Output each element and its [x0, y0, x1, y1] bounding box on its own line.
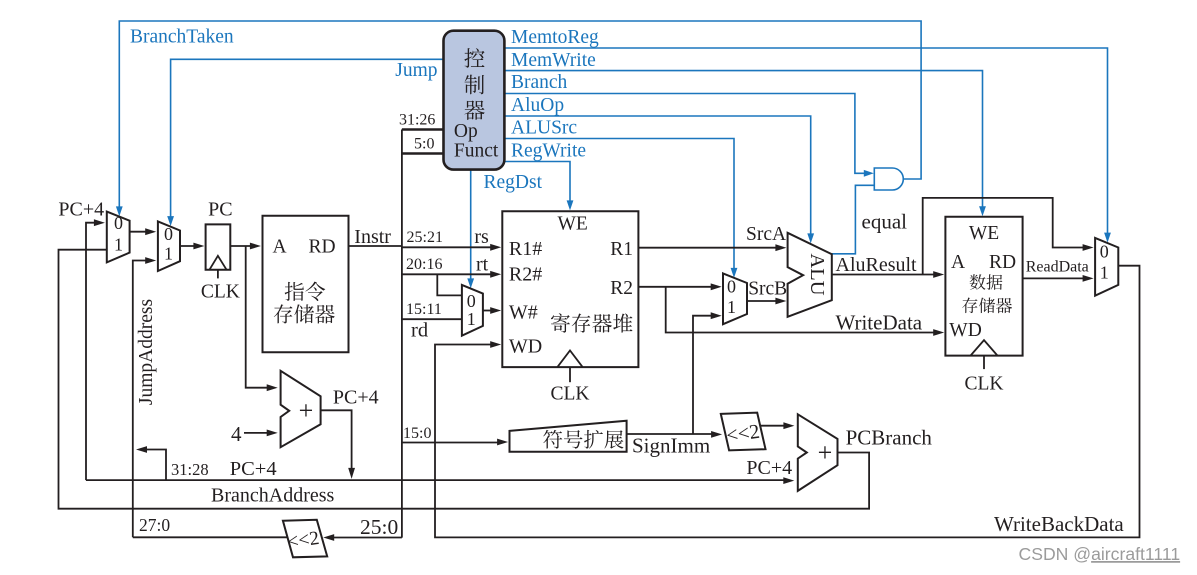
label MemtoReg — [511, 27, 599, 48]
svg-text:1: 1 — [467, 309, 476, 329]
svg-text:1: 1 — [114, 235, 123, 255]
svg-text:1: 1 — [1100, 263, 1109, 283]
svg-text:RD: RD — [308, 237, 335, 258]
svg-text:AluOp: AluOp — [511, 95, 564, 116]
wire W# mux output to register file W# — [483, 307, 501, 314]
label CLK of data memory — [965, 373, 1004, 394]
label WriteBackData — [994, 512, 1124, 536]
register PC with clock edge symbol — [206, 224, 231, 278]
svg-text:WE: WE — [969, 223, 999, 244]
svg-text:BranchTaken: BranchTaken — [130, 27, 234, 48]
mux M4 ALUSrc SrcB select — [723, 273, 747, 324]
svg-text:0: 0 — [467, 291, 476, 311]
svg-text:PCBranch: PCBranch — [846, 425, 933, 449]
label 25:21 — [407, 229, 443, 246]
label RegDst — [484, 172, 543, 193]
svg-text:rs: rs — [474, 226, 489, 248]
wire constant 4 into PC+4 adder — [244, 430, 278, 437]
shifter <<2 jump address — [283, 520, 327, 558]
wire rt tap down to W# mux input 0 — [437, 274, 461, 295]
wire 31:28 tap from PC+4 bus to jump address — [136, 446, 166, 480]
label AluOp — [511, 95, 564, 116]
label 15:0 — [403, 425, 431, 442]
wire PC+4 feedback bus (horizontal) — [86, 477, 794, 484]
wire ReadData from data memory RD to writeback mux input 1 — [1023, 275, 1094, 282]
wire branch shifter output to branch adder input — [761, 422, 795, 429]
svg-text:Branch: Branch — [511, 72, 568, 93]
label Instr — [354, 226, 391, 248]
svg-text:JumpAddress: JumpAddress — [136, 299, 157, 405]
svg-text:Op: Op — [454, 121, 478, 142]
wire Instr from instruction memory RD to instruction bus — [349, 245, 402, 247]
svg-text:MemtoReg: MemtoReg — [511, 27, 599, 48]
svg-text:SrcB: SrcB — [748, 279, 787, 300]
label BranchAddress — [211, 485, 335, 507]
wire MemtoReg (control unit to writeback mux select) — [504, 48, 1111, 243]
svg-text:CLK: CLK — [965, 373, 1004, 394]
mux M1 branch-taken PC source select — [107, 212, 130, 263]
svg-text:<<2: <<2 — [725, 421, 761, 447]
label rd — [411, 320, 428, 342]
svg-text:SrcA: SrcA — [746, 224, 786, 245]
svg-text:R2: R2 — [610, 278, 633, 299]
svg-text:WE: WE — [558, 214, 588, 235]
wire Jump (control unit to jump mux select) — [167, 59, 443, 226]
label rs — [474, 226, 489, 248]
svg-text:SignImm: SignImm — [632, 434, 710, 458]
mux M3 RegDst W# select — [462, 285, 483, 336]
svg-text:1: 1 — [164, 243, 173, 263]
svg-text:CLK: CLK — [551, 383, 590, 404]
sign extend unit 符号扩展 — [510, 421, 627, 452]
svg-text:4: 4 — [231, 422, 242, 446]
svg-text:RegWrite: RegWrite — [511, 140, 586, 161]
wire RegWrite (control unit to register file WE) — [504, 162, 573, 211]
svg-text:R1#: R1# — [509, 238, 542, 260]
label PC+4 at branch adder input — [746, 457, 792, 479]
wire BranchAddress (branch adder output feedback to branch mux input 1) — [59, 250, 870, 509]
wire BranchTaken (AND gate output to PC-source mux select) — [116, 21, 921, 216]
wire JumpAddress vertical to jump mux input 1 — [133, 257, 156, 537]
svg-text:20:16: 20:16 — [406, 256, 442, 273]
label equal — [862, 210, 908, 234]
wire rt field 20:16 to register file R2# — [402, 271, 501, 278]
label CLK of PC — [201, 281, 240, 302]
label PC+4 top left — [58, 198, 104, 220]
svg-text:31:26: 31:26 — [399, 112, 435, 129]
svg-text:CSDN @aircraft1111: CSDN @aircraft1111 — [1019, 544, 1181, 564]
wire WriteBackData (writeback mux output to register file WD) — [435, 266, 1140, 538]
label PCBranch — [846, 425, 933, 449]
control unit 控制器 — [444, 31, 505, 170]
wire PC+4 adder output down to PC+4 feedback bus — [321, 410, 355, 479]
svg-text:+: + — [818, 438, 833, 467]
label JumpAddress (rotated) — [136, 299, 157, 405]
instruction memory 指令存储器 — [263, 216, 349, 352]
adder A1 PC+4 — [281, 371, 321, 447]
svg-text:W#: W# — [509, 302, 538, 324]
wire PC+4 feedback up to branch mux input 0 — [86, 219, 105, 480]
label 27:0 — [139, 515, 170, 535]
label MemWrite — [511, 50, 596, 71]
wire R2 output to SrcB mux input 0 — [638, 283, 721, 290]
svg-text:0: 0 — [164, 224, 173, 244]
label SignImm — [632, 434, 710, 458]
label 31:28 — [171, 460, 209, 479]
svg-text:WD: WD — [509, 336, 542, 358]
wire SignImm from sign extend to branch shifter — [627, 431, 723, 438]
watermark CSDN @aircraft1111 — [1019, 544, 1181, 564]
ALU U1 — [788, 233, 832, 317]
svg-text:AluResult: AluResult — [836, 254, 918, 276]
svg-text:Funct: Funct — [454, 141, 499, 162]
AND gate U2 (Branch AND equal = BranchTaken) — [874, 168, 903, 190]
wire AluOp (control unit to ALU) — [504, 116, 814, 243]
wire 5:0 funct to control Funct input — [402, 152, 444, 154]
wire rs field 25:21 to register file R1# — [402, 244, 501, 251]
register file 寄存器堆 — [502, 211, 638, 382]
label 25:0 — [360, 515, 398, 539]
shifter <<2 branch offset — [721, 413, 766, 451]
label 5:0 — [414, 136, 434, 153]
wire SrcB mux output to ALU SrcB input — [747, 298, 786, 305]
wire branch mux output to jump mux input 0 — [130, 228, 157, 235]
wire equal (ALU compare output to AND gate input) — [832, 185, 875, 254]
label RegWrite — [511, 140, 586, 161]
label 15:11 — [406, 301, 442, 318]
wire jump mux output to PC register — [180, 243, 204, 250]
svg-text:Jump: Jump — [395, 60, 437, 81]
svg-text:WriteBackData: WriteBackData — [994, 512, 1124, 536]
svg-text:A: A — [272, 237, 286, 258]
wire AluResult to data memory A — [832, 271, 944, 278]
svg-text:25:21: 25:21 — [407, 229, 443, 246]
label ALUSrc — [511, 118, 577, 139]
label 31:26 — [399, 112, 435, 129]
svg-text:0: 0 — [727, 277, 736, 297]
label 20:16 — [406, 256, 442, 273]
svg-text:PC+4: PC+4 — [58, 198, 104, 220]
label rt — [476, 254, 489, 276]
label SrcA — [746, 224, 786, 245]
svg-text:CLK: CLK — [201, 281, 240, 302]
label ReadData — [1026, 259, 1089, 276]
label SrcB — [748, 279, 787, 300]
wire ALUSrc (control unit to SrcB mux select) — [504, 139, 737, 278]
svg-text:15:11: 15:11 — [406, 301, 442, 318]
mux M2 jump address select — [158, 221, 180, 271]
svg-text:RD: RD — [989, 252, 1016, 273]
svg-text:27:0: 27:0 — [139, 515, 170, 535]
svg-text:0: 0 — [114, 213, 123, 233]
wire PC output to instruction memory A — [230, 243, 261, 250]
wire 25:0 from instruction bus to jump shifter — [323, 534, 402, 541]
svg-text:rd: rd — [411, 320, 428, 342]
data memory 数据存储器 — [945, 217, 1022, 369]
svg-text:ReadData: ReadData — [1026, 259, 1089, 276]
svg-text:0: 0 — [1100, 242, 1109, 262]
svg-text:ALUSrc: ALUSrc — [511, 118, 577, 139]
svg-text:5:0: 5:0 — [414, 136, 434, 153]
label Jump — [395, 60, 437, 81]
svg-text:WD: WD — [949, 320, 982, 341]
svg-text:25:0: 25:0 — [360, 515, 398, 539]
wire MemWrite (control unit to data memory WE) — [504, 71, 986, 217]
wire R1 output to ALU SrcA input — [638, 244, 786, 251]
svg-text:MemWrite: MemWrite — [511, 50, 596, 71]
wire AluResult bypass over data memory to writeback mux input 0 — [923, 198, 1094, 275]
wire PC output tap down to PC+4 adder input — [246, 246, 278, 391]
svg-text:1: 1 — [727, 297, 736, 317]
svg-text:ALU: ALU — [806, 253, 828, 295]
label PC+4 on feedback bus — [230, 458, 277, 480]
svg-text:PC: PC — [208, 198, 232, 220]
svg-text:15:0: 15:0 — [403, 425, 431, 442]
wire WriteData tap from R2 to data memory WD — [666, 287, 945, 336]
svg-text:equal: equal — [862, 210, 908, 234]
svg-text:R2#: R2# — [509, 264, 542, 286]
svg-text:BranchAddress: BranchAddress — [211, 485, 335, 507]
svg-text:PC+4: PC+4 — [333, 387, 379, 409]
svg-text:A: A — [951, 252, 965, 273]
mux M5 MemtoReg writeback select — [1095, 238, 1118, 296]
svg-text:PC+4: PC+4 — [230, 458, 277, 480]
instruction bus (vertical) — [401, 130, 403, 538]
label PC+4 at adder output — [333, 387, 379, 409]
wire Branch (control unit to AND gate input) — [504, 94, 873, 177]
label PC — [208, 198, 232, 220]
svg-text:R1: R1 — [610, 239, 633, 260]
wire immediate field 15:0 to sign extend — [402, 439, 508, 446]
label WriteData — [836, 311, 923, 335]
wire RegDst (control unit to W# mux select) — [467, 170, 474, 289]
svg-text:RegDst: RegDst — [484, 172, 543, 193]
label BranchTaken — [130, 27, 234, 48]
wire SignImm tap up to SrcB mux input 1 — [693, 312, 722, 434]
wire rd field 15:11 to W# mux input 1 — [402, 318, 462, 320]
svg-text:<<2: <<2 — [286, 528, 320, 553]
adder A2 PCBranch — [798, 414, 838, 491]
label CLK of register file — [551, 383, 590, 404]
label AluResult — [836, 254, 918, 276]
label Branch — [511, 72, 568, 93]
svg-text:WriteData: WriteData — [836, 311, 923, 335]
svg-text:PC+4: PC+4 — [746, 457, 792, 479]
svg-text:31:28: 31:28 — [171, 460, 209, 479]
wire 27:0 from jump shifter output to jump address line — [133, 536, 288, 538]
label constant 4 — [231, 422, 242, 446]
svg-text:+: + — [299, 396, 314, 425]
svg-text:rt: rt — [476, 254, 489, 276]
wire 31:26 opcode to control Op input — [402, 128, 444, 130]
svg-text:Instr: Instr — [354, 226, 391, 248]
